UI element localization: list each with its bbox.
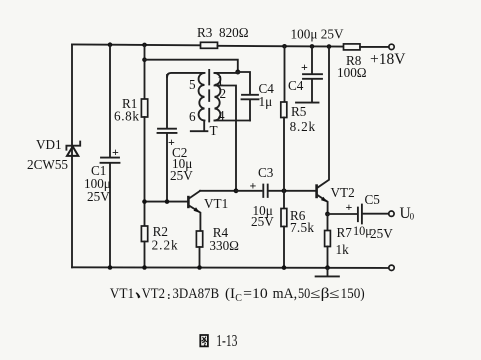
resistor R4 — [196, 231, 202, 247]
svg-text:C: C — [235, 293, 242, 304]
svg-text:100Ω: 100Ω — [337, 65, 367, 80]
wire: R4 to bottom rail — [199, 247, 201, 268]
junction: pin1 / C4 node — [235, 70, 240, 75]
wire: VT1 collector line — [200, 190, 236, 192]
capacitor C3 — [250, 179, 268, 197]
wire: pin 1 to node — [215, 72, 238, 74]
svg-text:β: β — [321, 286, 330, 302]
svg-text:8.2k: 8.2k — [290, 119, 316, 134]
svg-text:6: 6 — [189, 109, 196, 124]
resistor R5 — [281, 102, 287, 118]
svg-text:R3 820Ω: R3 820Ω — [197, 25, 249, 40]
capacitor C4 1μ — [242, 95, 259, 100]
junction: R5 R6 base node — [282, 188, 287, 193]
wire: R1 to base node — [144, 117, 146, 226]
wire: emitter to C5 — [328, 213, 357, 215]
junction: bottom / R7 ground — [325, 265, 330, 270]
ground under C4 bypass — [296, 102, 319, 104]
junction: top rail / C1 — [108, 42, 113, 47]
capacitor C5 — [346, 200, 362, 223]
resistor R6 — [281, 209, 287, 227]
svg-text:25V: 25V — [251, 214, 274, 229]
svg-text:1k: 1k — [336, 242, 350, 257]
svg-text:VT1: VT1 — [110, 286, 134, 302]
wire: R2 to bottom rail — [144, 242, 146, 268]
transistor VT2 — [317, 184, 328, 213]
wire: bottom rail — [72, 266, 389, 269]
resistor R3 — [201, 42, 218, 48]
junction: R1 tap to transformer pin1 — [142, 57, 147, 62]
svg-text:1-13: 1-13 — [216, 331, 237, 350]
svg-text:=10: =10 — [243, 286, 268, 302]
wire: R7 to bottom rail — [327, 247, 329, 268]
wire: node to R6 — [283, 191, 285, 209]
junction: top rail / R1 — [142, 43, 147, 48]
svg-text:≤: ≤ — [310, 286, 320, 302]
terminal U0 — [389, 211, 394, 216]
svg-text:330Ω: 330Ω — [209, 238, 239, 253]
svg-text:50: 50 — [298, 286, 310, 302]
svg-text:3DA87B: 3DA87B — [172, 286, 219, 302]
svg-text:+: + — [346, 200, 353, 214]
wire: top rail middle section — [218, 45, 344, 48]
svg-text:VT2: VT2 — [331, 185, 355, 200]
svg-text:VT2: VT2 — [142, 286, 165, 302]
caption 图 1-13 — [200, 331, 237, 350]
junction: R1R2 / base — [142, 199, 147, 204]
junction: bottom / C1 — [108, 265, 113, 270]
wire: C1 branch upper — [109, 45, 111, 157]
svg-text:+: + — [112, 145, 119, 159]
junction: top rail / VT2 collector — [327, 44, 332, 49]
wire: feed to transformer pin 1 — [145, 60, 238, 72]
wire: top rail left section — [72, 43, 200, 46]
ground at bottom rail — [316, 268, 339, 277]
junction: top rail / R5 — [282, 44, 287, 49]
caption line: VT1、VT2:3DA87B spec — [110, 286, 365, 304]
svg-text:mA,: mA, — [273, 286, 298, 302]
wire: R1 branch upper — [144, 45, 146, 99]
wire: pin 4 to C4 bottom — [215, 120, 251, 122]
wire: R5 branch — [284, 46, 286, 102]
junction: bottom / R4 — [197, 265, 202, 270]
svg-text::: : — [167, 290, 171, 302]
svg-text:25V: 25V — [87, 189, 110, 204]
svg-text:6.8k: 6.8k — [114, 109, 139, 124]
svg-text:2.2k: 2.2k — [152, 238, 178, 253]
wire: rail to +18V terminal — [360, 46, 389, 48]
svg-text:5: 5 — [189, 77, 196, 92]
resistor R1 — [141, 99, 147, 117]
transformer T left winding — [167, 73, 205, 121]
junction: VT2 emitter node — [325, 212, 330, 217]
svg-text:7.5k: 7.5k — [290, 220, 314, 235]
diode VD1 zener — [66, 142, 80, 156]
wire: emitter node to R7 — [327, 214, 329, 231]
terminal +18V — [389, 44, 394, 49]
svg-text:25V: 25V — [170, 168, 193, 183]
svg-text:100μ 25V: 100μ 25V — [291, 27, 344, 42]
svg-text:+18V: +18V — [370, 51, 406, 68]
transformer T right winding — [215, 73, 221, 121]
wire: collector node to C3 — [236, 190, 262, 192]
wire: pin 2 tap down to VT1 collector line — [215, 86, 237, 191]
svg-text:+: + — [301, 60, 308, 74]
wire: C5 to U0 terminal — [362, 213, 389, 215]
wire: VT1 base line — [145, 201, 188, 203]
junction: tap2 / collector — [234, 188, 239, 193]
svg-text:0: 0 — [410, 212, 415, 222]
transformer core — [208, 70, 210, 122]
svg-text:4: 4 — [218, 108, 225, 123]
wire: C3 to VT2 base — [268, 190, 316, 192]
resistor R2 — [141, 226, 147, 242]
junction: bottom / R2 — [142, 265, 147, 270]
wire: C4 bypass top — [311, 46, 313, 73]
junction: C2 / base — [165, 199, 170, 204]
wire: left vertical VD1 branch — [71, 44, 73, 267]
wire: C2 bottom to base line — [166, 133, 168, 201]
svg-text:VD1: VD1 — [36, 137, 62, 152]
resistor R8 — [344, 44, 361, 50]
resistor R7 — [325, 231, 331, 247]
wire: C1 branch lower — [109, 163, 111, 268]
svg-text:150): 150) — [341, 286, 365, 302]
transistor VT1 — [188, 191, 200, 231]
svg-text:C5: C5 — [365, 192, 381, 207]
svg-text:T: T — [210, 123, 218, 138]
svg-text:25V: 25V — [370, 226, 393, 241]
svg-text:≤: ≤ — [329, 286, 340, 302]
wire: R6 to bottom rail — [283, 227, 285, 268]
svg-text:VT1: VT1 — [204, 196, 228, 211]
wire: C4 bottom — [249, 100, 251, 121]
svg-text:C4: C4 — [288, 78, 304, 93]
wire: VT2 collector from rail — [318, 47, 329, 188]
svg-text:(I: (I — [225, 286, 235, 302]
svg-text:R5: R5 — [291, 104, 307, 119]
svg-text:1μ: 1μ — [259, 94, 273, 109]
transformer pin6 ground stub — [191, 121, 208, 132]
svg-text:2CW55: 2CW55 — [27, 157, 68, 172]
terminal bottom right — [389, 265, 394, 270]
wire: node to C4 top — [238, 72, 250, 94]
svg-text:R7: R7 — [337, 225, 353, 240]
capacitor C4 bypass 100μ — [301, 60, 322, 79]
wire: C2 top from winding — [166, 75, 168, 128]
wire: R5 to node — [283, 118, 285, 191]
junction: bottom / R6 — [282, 265, 287, 270]
svg-text:C3: C3 — [258, 165, 274, 180]
svg-text:2: 2 — [220, 86, 227, 101]
junction: top rail / C4 bypass — [310, 44, 315, 49]
capacitor C2 — [158, 129, 177, 149]
wire: C4 bypass to ground — [311, 79, 313, 101]
svg-text:+: + — [250, 179, 257, 193]
capacitor C1 — [101, 145, 120, 163]
